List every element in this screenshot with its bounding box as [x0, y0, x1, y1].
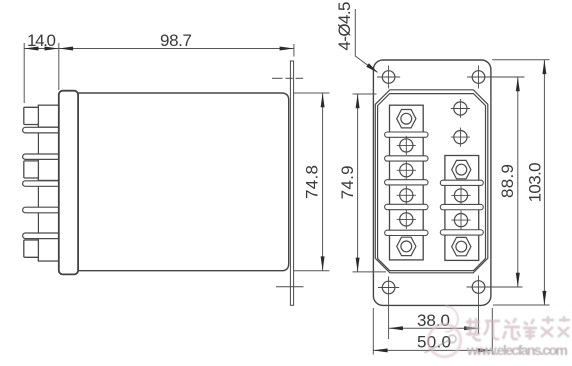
- pin square 1: [24, 107, 39, 124]
- relay body outline: [76, 93, 289, 271]
- pin base section 1: [38, 105, 60, 127]
- dimension 74.9 extension bottom: [353, 271, 387, 273]
- arrow 98.7 right: [280, 47, 294, 51]
- pin square 2: [24, 161, 39, 178]
- left strip separator pills: [385, 132, 428, 236]
- svg-text:103.0: 103.0: [526, 162, 545, 202]
- svg-text:www.elecfans.com: www.elecfans.com: [466, 342, 568, 358]
- dimension 14.0 extension line left: [23, 43, 25, 103]
- svg-text:88.9: 88.9: [498, 164, 517, 198]
- left terminal 5 (cross screw): [397, 210, 416, 229]
- pin blade 4: [23, 207, 60, 213]
- pin blade 5: [23, 233, 60, 239]
- svg-text:14.0: 14.0: [27, 31, 56, 50]
- arrow 98.7 left: [59, 47, 73, 51]
- pin block (relay base): [38, 105, 60, 261]
- arrow 50.0 left: [373, 348, 387, 352]
- arrow 88.9 bottom: [516, 273, 520, 287]
- dimension 50.0 extension left: [372, 308, 374, 355]
- arrow 103.0 top: [542, 60, 546, 74]
- mounting hole top-right: [467, 66, 525, 89]
- right screw terminal 1 (hex): [452, 160, 471, 178]
- dimension 103.0 extension top: [492, 59, 550, 61]
- right terminal strip: [445, 156, 479, 261]
- watermark chinese glyph 5: [541, 316, 554, 337]
- relay outline (inner, chamfered): [378, 94, 486, 271]
- dimension 74.9 extension top: [353, 93, 377, 95]
- right strip separator pills: [440, 180, 483, 235]
- watermark chinese glyph 4: [523, 319, 537, 340]
- arrow 50.0 right: [478, 348, 492, 352]
- free terminal B (cross screw): [451, 128, 470, 147]
- dimension line 74.8: [322, 93, 324, 271]
- flange (mounting base plate, side): [59, 91, 78, 275]
- dimension line 103.0: [543, 60, 545, 305]
- left screw terminal 6 (hex): [397, 237, 416, 255]
- arrow 14.0 right: [45, 47, 59, 51]
- watermark chinese glyph 2: [484, 321, 500, 339]
- dimension line 38.0: [389, 327, 479, 329]
- mounting hole bottom-right: [467, 276, 523, 335]
- arrow 74.8 top: [321, 93, 325, 107]
- leader line for 4-d4.5: [355, 9, 377, 72]
- svg-text:4-Ø4.5: 4-Ø4.5: [335, 2, 354, 51]
- pin blade 1: [23, 127, 60, 133]
- panel centerline top (dash-dot): [272, 77, 303, 79]
- free terminal A (cross screw): [451, 99, 470, 118]
- dimension 74.8 extension top: [294, 92, 330, 94]
- pin square 3: [24, 240, 39, 257]
- arrow 103.0 bottom: [542, 291, 546, 305]
- pin base section 2: [38, 159, 60, 181]
- arrow 14.0 left: [24, 47, 38, 51]
- dimension extension line at flange: [58, 43, 60, 90]
- dimension 98.7 extension line right: [293, 44, 295, 57]
- pin blade 3: [23, 181, 60, 187]
- left terminal 2 (cross screw): [397, 136, 416, 155]
- arrow 88.9 top: [516, 77, 520, 91]
- dimension line 50.0: [373, 349, 492, 351]
- arrow 74.9 top: [356, 94, 360, 108]
- dimension line 74.9: [357, 94, 359, 272]
- right screw terminal 4 (hex): [452, 237, 471, 255]
- arrow 38.0 left: [389, 326, 403, 330]
- relay outline (outer, chamfered): [375, 90, 488, 273]
- dimension line 14.0 / 98.7: [24, 48, 294, 50]
- dimension 103.0 extension bottom: [493, 304, 550, 306]
- arrow 74.9 bottom: [356, 258, 360, 272]
- svg-text:74.8: 74.8: [303, 165, 322, 199]
- pin base section 3: [38, 238, 60, 261]
- left terminal 3 (cross screw): [397, 161, 416, 180]
- left terminal 4 (cross screw): [397, 186, 416, 205]
- watermark chinese glyph 1: [466, 318, 481, 340]
- watermark chinese glyph 3: [503, 318, 520, 339]
- right terminal 3 (cross screw): [451, 211, 470, 230]
- dimension line 88.9: [517, 77, 519, 287]
- mounting plate: [373, 60, 491, 305]
- arrow 38.0 right: [464, 326, 478, 330]
- svg-text:74.9: 74.9: [338, 165, 357, 199]
- mounting hole bottom-left: [378, 277, 399, 340]
- left screw terminal 1 (hex): [397, 110, 416, 128]
- dimension 50.0 extension right: [491, 308, 493, 355]
- mounting hole top-left: [377, 66, 400, 89]
- mounting panel (edge view): [290, 61, 293, 305]
- svg-text:98.7: 98.7: [160, 31, 192, 50]
- watermark chinese glyph 6: [558, 316, 570, 337]
- panel centerline bottom: [276, 286, 304, 288]
- pin blade 2: [23, 154, 60, 159]
- arrow 74.8 bottom: [321, 256, 325, 270]
- right terminal 2 (cross screw): [451, 186, 470, 205]
- dimension 74.8 extension bottom: [294, 270, 330, 272]
- watermark logo ring: [425, 306, 461, 357]
- leader arrow: [366, 63, 378, 73]
- left terminal strip: [390, 105, 424, 260]
